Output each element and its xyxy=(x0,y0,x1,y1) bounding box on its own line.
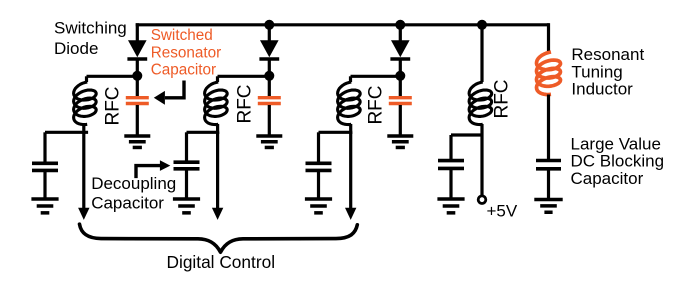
svg-text:Diode: Diode xyxy=(54,39,98,58)
svg-text:Resonator: Resonator xyxy=(151,44,222,61)
svg-text:RFC: RFC xyxy=(235,84,256,123)
svg-text:Inductor: Inductor xyxy=(571,80,633,99)
svg-text:Resonant: Resonant xyxy=(571,45,644,64)
svg-text:Capacitor: Capacitor xyxy=(91,194,164,213)
svg-text:RFC: RFC xyxy=(365,85,386,124)
svg-text:DC Blocking: DC Blocking xyxy=(571,152,665,171)
svg-text:Switched: Switched xyxy=(151,27,213,44)
svg-text:+5V: +5V xyxy=(487,202,518,221)
svg-text:RFC: RFC xyxy=(492,79,513,118)
svg-text:Decoupling: Decoupling xyxy=(91,174,176,193)
svg-text:Tuning: Tuning xyxy=(571,62,622,81)
svg-text:Capacitor: Capacitor xyxy=(571,169,644,188)
svg-text:Capacitor: Capacitor xyxy=(151,62,216,79)
svg-text:Large Value: Large Value xyxy=(571,134,661,153)
svg-text:Digital Control: Digital Control xyxy=(167,252,276,272)
svg-text:RFC: RFC xyxy=(103,86,124,125)
svg-text:Switching: Switching xyxy=(54,19,127,38)
